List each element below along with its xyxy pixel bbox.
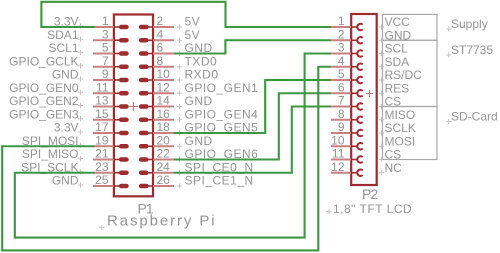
svg-text:Supply: Supply (451, 17, 488, 31)
svg-text:SCL1: SCL1 (48, 41, 78, 55)
section box ST7735 (pins 3-7) (383, 40, 438, 106)
svg-text:21: 21 (95, 147, 109, 161)
connector P1 box (114, 15, 153, 197)
svg-text:2: 2 (157, 14, 164, 28)
P1 pin 17 (3.3V) (93, 132, 126, 134)
svg-text:MISO: MISO (385, 108, 416, 122)
P1 part origin cross (129, 102, 138, 111)
svg-text:18: 18 (157, 120, 171, 134)
svg-text:SD-Card: SD-Card (451, 110, 498, 124)
P1 pin 2 (5V) (141, 26, 174, 28)
P1 pin 4 (5V) (141, 39, 174, 41)
svg-text:9: 9 (338, 120, 345, 134)
section box SD-Card (pins 8-11) (383, 107, 438, 160)
svg-text:1: 1 (102, 14, 109, 28)
svg-text:2: 2 (338, 27, 345, 41)
svg-text:RXD0: RXD0 (185, 68, 219, 82)
svg-text:4: 4 (157, 27, 164, 41)
P1 pin 24 (SPI_CE0_N) (141, 172, 174, 174)
svg-text:SPI_CE1_N: SPI_CE1_N (185, 174, 254, 188)
P2 pin 8 (MISO) (331, 117, 363, 123)
P1 pin 12 (GPIO_GEN1) (141, 92, 174, 94)
svg-text:GND: GND (52, 68, 79, 82)
svg-text:GND: GND (185, 94, 213, 108)
svg-text:20: 20 (157, 133, 171, 147)
P2 pin 4 (SDA) (331, 64, 363, 70)
svg-text:3: 3 (102, 27, 109, 41)
svg-text:SCLK: SCLK (385, 121, 416, 135)
P1 pin 10 (RXD0) (141, 79, 174, 81)
P2 pin 9 (SCLK) (331, 130, 363, 136)
P2 pin 3 (SCL) (331, 50, 363, 56)
svg-text:NC: NC (385, 161, 403, 175)
P1 pin 26 (SPI_CE1_N) (141, 185, 174, 187)
svg-text:GPIO_GEN2: GPIO_GEN2 (9, 94, 79, 108)
P2 pin 6 (RES) (331, 90, 363, 96)
svg-text:9: 9 (102, 67, 109, 81)
svg-text:GND: GND (52, 174, 79, 188)
wire SPI_MOSI: P1 pin19 to P2 pin4 SDA (2, 67, 331, 251)
svg-text:12: 12 (331, 160, 345, 174)
wire 3.3V: P1 pin1 to P2 pin1 VCC (41, 2, 331, 27)
svg-text:8: 8 (338, 107, 345, 121)
svg-text:SDA1: SDA1 (47, 28, 79, 42)
svg-text:Raspberry Pi: Raspberry Pi (107, 213, 217, 230)
P1 pin 6 (GND) (141, 53, 174, 55)
P2 pin 2 (GND) (331, 37, 363, 43)
svg-text:11: 11 (96, 80, 109, 94)
svg-text:1: 1 (338, 14, 345, 28)
P2 pin 1 (VCC) (331, 24, 363, 30)
svg-text:MOSI: MOSI (385, 134, 416, 148)
P2 part origin cross (366, 90, 373, 97)
svg-text:TXD0: TXD0 (185, 54, 218, 68)
P1 pin 14 (GND) (141, 106, 174, 108)
svg-text:1,8" TFT LCD: 1,8" TFT LCD (333, 202, 412, 216)
P1 pin 19 (SPI_MOSI) (93, 145, 126, 147)
P2 pin 10 (MOSI) (331, 143, 363, 149)
svg-text:SPI_MISO: SPI_MISO (22, 147, 79, 161)
svg-text:GPIO_GEN0: GPIO_GEN0 (9, 81, 79, 95)
P2 pin 5 (RS/DC) (331, 77, 363, 83)
P1 pin 21 (SPI_MISO) (93, 159, 126, 161)
svg-text:25: 25 (95, 173, 109, 187)
svg-text:10: 10 (157, 67, 171, 81)
svg-text:26: 26 (157, 173, 171, 187)
svg-text:5V: 5V (185, 15, 201, 29)
svg-text:12: 12 (157, 80, 171, 94)
svg-text:ST7735: ST7735 (451, 43, 493, 57)
svg-text:19: 19 (95, 133, 109, 147)
svg-text:3.3V: 3.3V (54, 121, 79, 135)
P2 pin 12 (NC) (331, 170, 363, 176)
P1 pin 9 (GND) (93, 79, 126, 81)
wire GND: P1 pin6 to P2 pin2 GND (174, 40, 331, 53)
svg-text:7: 7 (338, 94, 345, 108)
svg-text:VCC: VCC (385, 15, 411, 29)
wire GPIO_GEN5: P1 pin18 to P2 pin5 RS/DC (174, 80, 331, 133)
svg-text:GPIO_GEN3: GPIO_GEN3 (9, 107, 79, 121)
P1 pin 7 (GPIO_GCLK) (93, 66, 126, 68)
P1 pin 15 (GPIO_GEN3) (93, 119, 126, 121)
wire GPIO_GEN6: P1 pin22 to P2 pin6 RES (174, 93, 331, 159)
P1 pin 1 (3.3V) (93, 26, 126, 28)
svg-text:8: 8 (157, 54, 164, 68)
svg-text:24: 24 (157, 160, 171, 174)
svg-text:13: 13 (95, 94, 109, 108)
P1 pin 23 (SPI_SCLK) (93, 172, 126, 174)
svg-text:7: 7 (102, 54, 109, 68)
P1 pin 25 (GND) (93, 185, 126, 187)
svg-text:SCL: SCL (385, 42, 409, 56)
connector P2 box (351, 14, 377, 185)
svg-text:10: 10 (331, 133, 345, 147)
svg-text:14: 14 (157, 94, 171, 108)
P1 pin 16 (GPIO_GEN4) (141, 119, 174, 121)
svg-text:6: 6 (338, 80, 345, 94)
P1 pin 20 (GND) (141, 145, 174, 147)
P1 pin 5 (SCL1) (93, 53, 126, 55)
svg-text:SDA: SDA (385, 55, 410, 69)
svg-text:6: 6 (157, 41, 164, 55)
svg-text:GND: GND (185, 134, 213, 148)
svg-text:4: 4 (338, 54, 345, 68)
P1 pin 11 (GPIO_GEN0) (93, 92, 126, 94)
svg-text:RES: RES (385, 81, 410, 95)
svg-text:3: 3 (338, 41, 345, 55)
svg-text:5V: 5V (185, 28, 201, 42)
svg-text:GPIO_GEN1: GPIO_GEN1 (185, 81, 259, 95)
svg-text:P2: P2 (362, 186, 378, 202)
wire SPI_CE0_N: P1 pin24 to P2 pin7 CS (174, 107, 331, 173)
wire SPI_SCLK: P1 pin23 to P2 pin3 SCL (15, 54, 331, 238)
svg-text:GPIO_GCLK: GPIO_GCLK (9, 54, 78, 68)
svg-text:15: 15 (95, 107, 109, 121)
P1 pin 3 (SDA1) (93, 39, 126, 41)
svg-text:11: 11 (332, 147, 345, 161)
section box Supply (pins 1-2) (383, 14, 438, 40)
P1 pin 22 (GPIO_GEN6) (141, 159, 174, 161)
P2 pin 11 (CS) (331, 156, 363, 162)
P1 pin 13 (GPIO_GEN2) (93, 106, 126, 108)
svg-text:16: 16 (157, 107, 171, 121)
P1 pin 18 (GPIO_GEN5) (141, 132, 174, 134)
svg-text:RS/DC: RS/DC (385, 68, 423, 82)
svg-text:23: 23 (95, 160, 109, 174)
P1 pin 8 (TXD0) (141, 66, 174, 68)
svg-text:5: 5 (338, 67, 345, 81)
P2 pin 7 (CS) (331, 103, 363, 109)
svg-text:17: 17 (95, 120, 109, 134)
svg-text:GPIO_GEN4: GPIO_GEN4 (185, 107, 259, 121)
svg-text:5: 5 (102, 41, 109, 55)
svg-text:22: 22 (157, 147, 171, 161)
